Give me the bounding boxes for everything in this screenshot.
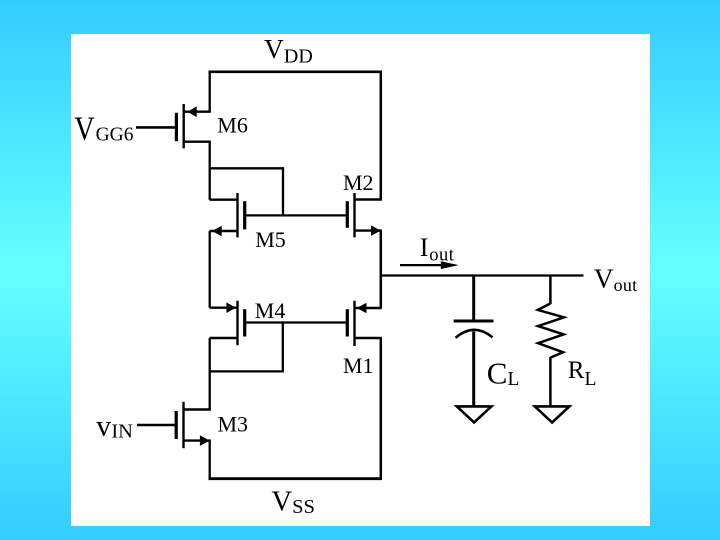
svg-text:vIN: vIN <box>96 411 133 443</box>
wire M5 source to M4 source <box>209 231 211 308</box>
svg-text:CL: CL <box>487 355 520 390</box>
wire VDD to M2 drain <box>380 71 383 200</box>
wire output line to Vout <box>380 274 584 276</box>
resistor RL <box>538 275 564 407</box>
wire M2 source to output node <box>380 231 383 277</box>
svg-text:M6: M6 <box>217 113 248 138</box>
svg-text:GG6: GG6 <box>96 125 134 146</box>
wire M4 diode connection to gate bus <box>210 321 283 371</box>
wire VDD to M6 source <box>209 71 211 112</box>
transistor M3 <box>176 402 211 448</box>
svg-text:Iout: Iout <box>420 233 455 265</box>
wire VGG6 input <box>136 126 175 129</box>
wire M1 drain to VSS <box>380 338 383 480</box>
wire M4 drain down to M3 drain <box>209 338 211 410</box>
wire M6 drain branch to gates <box>210 168 283 216</box>
ground for RL <box>535 406 570 422</box>
Iout arrow <box>400 261 459 269</box>
svg-text:M2: M2 <box>343 170 374 195</box>
wire gate bus M5-M2 <box>244 214 349 216</box>
wire vIN input <box>137 424 175 427</box>
svg-text:RL: RL <box>568 357 597 390</box>
svg-text:M1: M1 <box>343 353 374 378</box>
VDD rail wire <box>209 70 382 73</box>
svg-text:M5: M5 <box>255 227 286 252</box>
svg-text:M3: M3 <box>218 412 249 437</box>
wire M3 source to VSS <box>209 441 211 480</box>
transistor M1 <box>347 301 382 346</box>
transistor M5 <box>210 193 245 237</box>
wire gate bus M4-M1 <box>244 321 349 323</box>
capacitor CL <box>454 275 494 407</box>
white schematic panel <box>71 34 650 526</box>
ground for CL <box>457 406 492 422</box>
transistor M4 <box>210 301 245 346</box>
wire M6 drain down <box>209 142 211 200</box>
svg-text:Vout: Vout <box>594 263 638 295</box>
transistor M6 <box>176 104 210 148</box>
svg-text:VSS: VSS <box>272 487 315 518</box>
svg-text:VDD: VDD <box>264 33 313 67</box>
wire output node to M1 source <box>380 275 383 309</box>
VSS rail wire <box>209 477 382 480</box>
svg-text:V: V <box>74 111 95 148</box>
transistor M2 <box>347 193 382 237</box>
svg-text:M4: M4 <box>255 298 286 323</box>
